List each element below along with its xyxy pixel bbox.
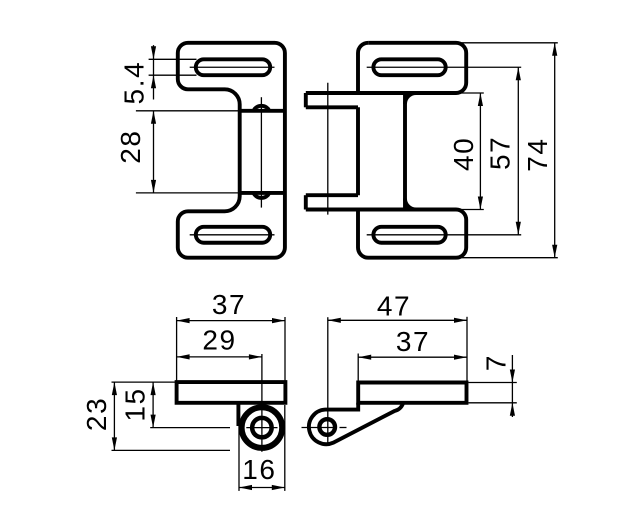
svg-text:7: 7 [481, 354, 512, 371]
svg-text:5.4: 5.4 [119, 61, 150, 105]
svg-text:37: 37 [396, 326, 430, 357]
svg-text:16: 16 [242, 454, 276, 485]
svg-text:40: 40 [448, 137, 479, 171]
svg-text:47: 47 [377, 291, 411, 322]
svg-text:23: 23 [81, 397, 112, 431]
svg-text:37: 37 [212, 289, 246, 320]
svg-text:74: 74 [522, 137, 553, 171]
svg-text:57: 57 [485, 136, 516, 170]
svg-text:28: 28 [115, 129, 146, 163]
svg-text:29: 29 [202, 325, 236, 356]
svg-text:15: 15 [120, 387, 151, 421]
